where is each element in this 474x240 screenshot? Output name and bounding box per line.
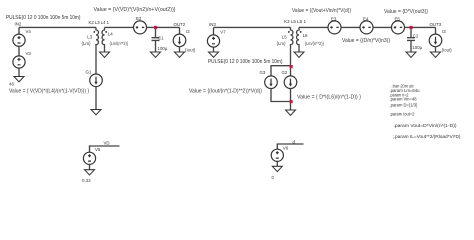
wire V6 to ground (276, 161, 278, 167)
svg-text:{Lm}: {Lm} (277, 41, 287, 46)
svg-text:100µ: 100µ (412, 45, 422, 50)
voltage source V3 (13, 56, 25, 68)
junction node at C2/OUT3 (410, 26, 413, 29)
svg-text:C1: C1 (158, 35, 164, 40)
svg-text:L4: L4 (108, 31, 113, 36)
svg-text:Value = {(Vout+Vin/n)*V(d)}: Value = {(Vout+Vin/n)*V(d)} (292, 8, 351, 14)
L4 phase dot (105, 31, 107, 33)
wire OUT2 down to I2 (179, 27, 181, 34)
ground under G1 (91, 110, 101, 115)
svg-text:G2: G2 (282, 70, 288, 75)
svg-text:OUT3: OUT3 (430, 22, 442, 27)
svg-text:100µ: 100µ (158, 46, 168, 51)
voltage source V4 (13, 34, 25, 46)
wire node VD (90, 146, 120, 152)
voltage source V6 (271, 149, 283, 161)
wire E5 to OUT3 (404, 26, 435, 28)
svg-text:Value = {V(VD)*(V(in2)/n+V(out: Value = {V(VD)*(V(in2)/n+V(out2))} (94, 7, 176, 13)
svg-text:{Lm/(n**2)}: {Lm/(n**2)} (110, 41, 129, 46)
svg-text:Value = { D*I(L6)/(n*(1-D)) }: Value = { D*I(L6)/(n*(1-D)) } (297, 95, 361, 101)
wire V3 to ground (18, 68, 20, 77)
junction node at C1/OUT2 (154, 26, 157, 29)
ground under G2 (286, 110, 296, 115)
ground under L4 (100, 52, 110, 57)
svg-text:48: 48 (9, 81, 14, 86)
capacitor C1 (152, 38, 160, 41)
wire E3 to E4 (341, 26, 360, 28)
wire C2 top lead (410, 27, 412, 37)
ground under V6 (272, 166, 282, 171)
svg-text:IN3: IN3 (209, 22, 216, 27)
junction node G3 branch (290, 65, 293, 68)
wire L3 to G1 (95, 49, 97, 75)
wire branch to G3 (271, 66, 291, 77)
wire C1 bottom lead (155, 40, 157, 52)
svg-text:L6: L6 (303, 33, 308, 38)
ground under L6 (294, 52, 304, 57)
wire V7 top lead (213, 27, 215, 35)
svg-text:.param Vout=D*Vin/(n*(1-D)): .param Vout=D*Vin/(n*(1-D)) (394, 123, 458, 128)
wire L4 top to E2 (105, 26, 134, 28)
wire IN2 bus to transformer (19, 26, 96, 28)
svg-text:{Iout}: {Iout} (442, 47, 453, 52)
svg-text:K2 L3 L4 1: K2 L3 L4 1 (89, 20, 110, 25)
svg-text:I3: I3 (442, 29, 446, 34)
ground under V5 (85, 170, 95, 175)
svg-text:.param Vin=48: .param Vin=48 (390, 97, 418, 102)
ground under V7 (209, 52, 219, 57)
ground under C1 (151, 52, 161, 57)
wire E2 to OUT2 (146, 26, 179, 28)
svg-text:L3: L3 (87, 34, 92, 39)
svg-text:E4: E4 (363, 16, 369, 21)
svg-text:E2: E2 (136, 16, 142, 21)
svg-text:{Lm}: {Lm} (82, 41, 92, 46)
L5 phase dot (288, 31, 290, 33)
svg-text:OUT2: OUT2 (174, 22, 186, 27)
wire L4 to ground (104, 49, 106, 52)
wire V4 top lead (18, 27, 20, 34)
svg-text:I2: I2 (186, 29, 190, 34)
current source I3 (429, 34, 442, 47)
ground under V3 (14, 77, 24, 82)
behavioral source E5 (392, 21, 405, 34)
wire E4 to E5 (373, 26, 392, 28)
wire V7 to ground (213, 47, 215, 52)
svg-text:L5: L5 (282, 35, 287, 40)
svg-text:V6: V6 (283, 145, 289, 150)
wire C1 top lead (155, 27, 157, 37)
current source G3 (265, 76, 278, 89)
current source G1 (90, 74, 103, 87)
wire IN3 bus (214, 26, 291, 28)
inductor L5 primary winding (291, 27, 293, 48)
L3 phase dot (93, 31, 95, 33)
current source G2 (284, 76, 297, 89)
wire G2 bottom to ground (290, 88, 292, 110)
wire V5 to ground (89, 164, 91, 170)
svg-text:.param Iout=2: .param Iout=2 (390, 112, 416, 117)
wire OUT3 down to I3 (435, 27, 437, 34)
svg-text:C2: C2 (413, 33, 419, 38)
svg-text:V5: V5 (95, 147, 101, 152)
svg-text:G3: G3 (260, 70, 266, 75)
L6 phase dot (300, 31, 302, 33)
svg-text:V7: V7 (220, 30, 226, 35)
wire L6 top to E3 (299, 26, 328, 28)
svg-text:Value = {D*V(out3)}: Value = {D*V(out3)} (384, 9, 428, 15)
capacitor C2 (407, 38, 415, 41)
svg-text:0.33: 0.33 (82, 178, 91, 183)
svg-text:K3 L5 L6 1: K3 L5 L6 1 (284, 19, 306, 24)
wire I2 to ground (179, 47, 181, 52)
wire G3 bottom (271, 88, 291, 101)
behavioral source E2 (134, 21, 147, 34)
svg-text:.param D={1/3}: .param D={1/3} (390, 102, 419, 107)
svg-text:Value = { V(VD)*I(L4)/(n*(1-V(: Value = { V(VD)*I(L4)/(n*(1-V(VD))) } (9, 89, 89, 95)
svg-text:{Iout}: {Iout} (185, 47, 196, 52)
svg-text:Value = {(D/n)*V(in3)}: Value = {(D/n)*V(in3)} (342, 38, 390, 44)
svg-text:V3: V3 (26, 51, 32, 56)
svg-text:PULSE(0 12 0 100n 100n 5m 10m): PULSE(0 12 0 100n 100n 5m 10m) (208, 59, 283, 65)
behavioral source E3 (328, 21, 341, 34)
wire V4 to V3 (18, 46, 20, 57)
wire node d (277, 144, 303, 150)
wire L6 to ground (298, 49, 300, 52)
svg-text:E5: E5 (395, 16, 401, 21)
svg-text:G1: G1 (86, 70, 92, 75)
svg-text:Value = {(Iout/(n*(1-D)**2))*V: Value = {(Iout/(n*(1-D)**2))*V(d)} (189, 89, 262, 95)
wire C2 bottom lead (410, 40, 412, 52)
wire L5 down to node (290, 49, 292, 77)
junction node G3/G2 bottom (290, 100, 293, 103)
voltage source V7 (207, 35, 219, 47)
svg-text:0: 0 (272, 175, 275, 180)
inductor L6 secondary winding (297, 27, 299, 48)
svg-text:;.param IL=Vout**2/(Rload*Vi*D: ;.param IL=Vout**2/(Rload*Vi*D) (393, 134, 462, 139)
current source I2 (173, 34, 186, 47)
svg-text:E3: E3 (331, 16, 337, 21)
voltage source V5 (83, 152, 95, 164)
svg-text:PULSE(0 12 0 100n 100n 5m 10m): PULSE(0 12 0 100n 100n 5m 10m) (6, 15, 81, 21)
svg-text:{Lm/(n**2)}: {Lm/(n**2)} (305, 41, 324, 46)
behavioral source E4 (360, 21, 373, 34)
svg-text:IN2: IN2 (15, 21, 22, 26)
inductor L4 secondary winding (102, 27, 104, 48)
ground under I2 (175, 52, 185, 57)
wire G1 to ground (95, 86, 97, 109)
ground under C2 (406, 52, 416, 57)
wire I3 to ground (435, 47, 437, 52)
svg-text:V4: V4 (26, 29, 32, 34)
ground under I3 (431, 52, 441, 57)
inductor L3 primary winding (96, 27, 98, 48)
svg-text:VD: VD (104, 141, 110, 146)
